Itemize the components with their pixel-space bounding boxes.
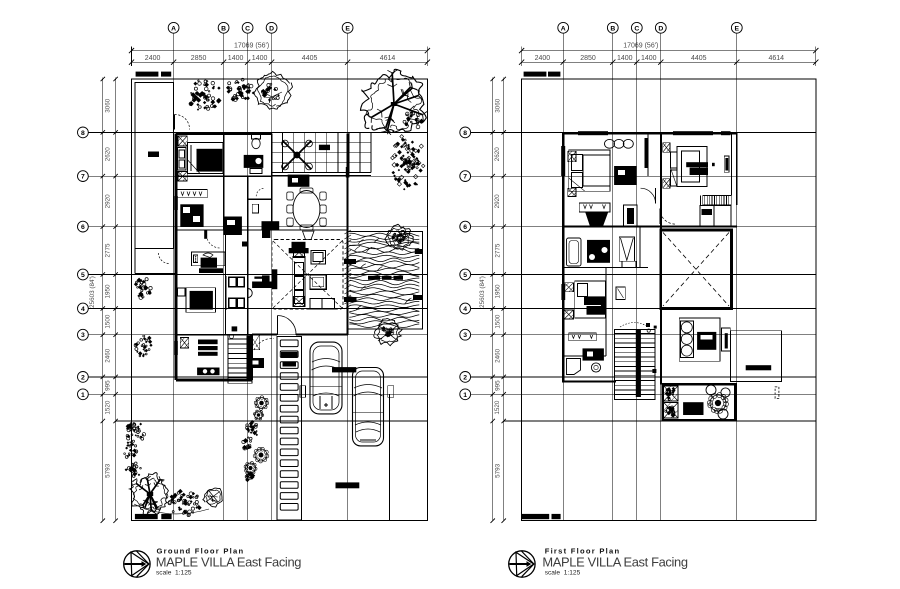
- bedroom1 wardrobe hatch boxes: [568, 151, 576, 162]
- fence line right of driveway: [389, 394, 391, 520]
- kitchen island black: [223, 217, 242, 236]
- row bubble 7: [460, 171, 471, 182]
- bedroom1 closet: [624, 205, 638, 227]
- grid line column D: [271, 33, 273, 521]
- side bushes left 1: [136, 278, 141, 283]
- column bubble A: [168, 22, 179, 33]
- svg-text:2400: 2400: [535, 55, 551, 62]
- staircase rail black: [247, 336, 253, 380]
- bath vanity black: [244, 155, 264, 168]
- svg-text:D: D: [269, 25, 274, 32]
- grid line row 7: [471, 175, 816, 177]
- svg-text:995: 995: [104, 380, 111, 391]
- living room dashed X: [273, 241, 342, 308]
- grid line column B: [612, 33, 614, 521]
- bedroom3 bed: [575, 281, 606, 318]
- grid line row 6: [471, 226, 816, 228]
- big tree top right: [361, 69, 427, 133]
- logo circle: [509, 551, 535, 577]
- toilet in bath top: [252, 135, 261, 140]
- dining table oval: [293, 191, 320, 228]
- living table black (first floor): [697, 332, 716, 350]
- svg-text:7: 7: [463, 174, 467, 181]
- living fireplace funnel: [303, 231, 315, 239]
- grid line column E: [736, 33, 738, 521]
- sofa end hatch boxes: [294, 248, 305, 258]
- wall small bath bottom: [248, 198, 272, 200]
- svg-text:1400: 1400: [617, 55, 633, 62]
- terrace round table with chairs: [710, 395, 726, 411]
- wall bedroom bottom: [176, 175, 272, 177]
- svg-text:1500: 1500: [494, 314, 501, 329]
- study desk room: [192, 252, 226, 266]
- tree at pool bottom: [374, 319, 402, 346]
- dimension line overall: [132, 50, 428, 52]
- column bubble E: [731, 22, 742, 33]
- wall window bar at column E: [346, 167, 350, 178]
- grid line column E: [347, 33, 349, 521]
- bedroom2 bed: [186, 288, 216, 313]
- svg-text:MAPLE VILLA East Facing: MAPLE VILLA East Facing: [156, 554, 301, 569]
- row bubble 4: [460, 303, 471, 314]
- svg-text:B: B: [610, 25, 615, 32]
- grid line row 5: [88, 274, 427, 276]
- svg-text:5793: 5793: [104, 463, 111, 478]
- column bubble D: [655, 22, 666, 33]
- bedroom2 dresser bottom: [700, 206, 731, 227]
- living TV unit black: [292, 242, 306, 248]
- logo chevron: [136, 551, 149, 577]
- master bedroom wardrobe hatch top: [178, 136, 187, 146]
- wall study right double: [225, 230, 227, 335]
- flower vine flowers: [256, 398, 267, 409]
- row bubble 6: [460, 221, 471, 232]
- svg-text:2775: 2775: [104, 243, 111, 258]
- svg-text:3: 3: [463, 332, 467, 339]
- setback line: [116, 420, 428, 422]
- wall bottom of bedroom3 zone: [562, 380, 616, 382]
- setback line: [504, 420, 816, 422]
- wall row6 (first floor): [563, 226, 737, 228]
- house outer wall right: [347, 134, 349, 335]
- row bubble 4: [78, 303, 89, 314]
- dashed small box right: [775, 387, 779, 399]
- grid line row 5: [471, 274, 816, 276]
- grid line column C: [636, 33, 638, 521]
- ceiling fan circles bedroom1: [605, 139, 615, 148]
- grid line column B: [223, 33, 225, 521]
- window bars top wall: [578, 131, 608, 135]
- swimming pool: [348, 232, 423, 330]
- svg-text:2920: 2920: [494, 194, 501, 209]
- svg-text:2: 2: [463, 374, 467, 381]
- entry wall: [252, 334, 277, 336]
- left dimension lines: [492, 78, 494, 521]
- balcony rail hatch bedroom2: [703, 196, 732, 206]
- entry step box: [250, 335, 259, 350]
- bathroom bottom wall: [563, 266, 648, 268]
- terrace planters: [664, 386, 678, 401]
- patio tile grid: [271, 133, 273, 173]
- dining buffet black: [288, 175, 310, 187]
- kitchen counter: [177, 189, 208, 197]
- pool step markers: [344, 259, 356, 264]
- door arc at porch: [175, 114, 190, 129]
- grid line row 8: [88, 131, 427, 133]
- svg-text:6: 6: [463, 224, 467, 231]
- car 1: [310, 342, 342, 414]
- grid line row 4: [471, 308, 816, 310]
- bedroom2 side table: [178, 288, 186, 296]
- terrace table black: [683, 402, 703, 415]
- svg-text:4405: 4405: [302, 55, 318, 62]
- svg-text:3060: 3060: [494, 98, 501, 113]
- grid line column C: [247, 33, 249, 521]
- logo triangle: [131, 552, 149, 575]
- left dimension lines: [102, 78, 104, 521]
- corridor window bar: [242, 242, 248, 247]
- svg-text:4614: 4614: [380, 55, 396, 62]
- patio table with X legs: [283, 141, 311, 169]
- svg-text:2920: 2920: [104, 194, 111, 209]
- stair top black dots: [646, 323, 650, 327]
- svg-text:C: C: [245, 25, 250, 32]
- bottom bathroom fixtures: [567, 359, 581, 375]
- wall row3 left section: [176, 334, 252, 336]
- grid line row 2: [88, 376, 427, 378]
- svg-text:3060: 3060: [104, 98, 111, 113]
- dashed walk line stairs: [620, 323, 648, 328]
- study table blob: [197, 368, 219, 376]
- terrace bold room bottom: [663, 384, 736, 420]
- svg-text:A: A: [171, 25, 176, 32]
- svg-text:17069 (56'): 17069 (56'): [623, 43, 658, 50]
- svg-text:scale 1:125: scale 1:125: [156, 570, 192, 577]
- left wall window bars: [174, 196, 178, 210]
- small bath washbasin: [252, 204, 258, 213]
- study wardrobe hatch: [180, 338, 188, 348]
- entry dashed arc near walkway: [254, 338, 274, 350]
- hall chairs pair bottom: [229, 298, 236, 308]
- bedroom2 wardrobe hatch boxes: [663, 143, 670, 153]
- corridor window bar: [645, 138, 649, 168]
- column bubble A: [558, 22, 569, 33]
- wall corridor vertical: [247, 176, 249, 335]
- grid line row 3: [88, 334, 427, 336]
- svg-text:5: 5: [81, 272, 85, 279]
- svg-text:C: C: [634, 25, 639, 32]
- dimension line segments: [522, 61, 816, 63]
- small black square hall: [232, 326, 238, 331]
- bedroom2 blanket black: [686, 162, 708, 167]
- row bubble 5: [78, 269, 89, 280]
- study desk black bars: [198, 340, 218, 345]
- grid line row 3: [471, 334, 816, 336]
- outer wall top (first floor): [563, 132, 737, 134]
- svg-text:25603 (84'): 25603 (84'): [89, 276, 96, 308]
- svg-text:8: 8: [463, 130, 467, 137]
- logo arrow: [124, 563, 142, 565]
- living black wall fills: [262, 230, 270, 238]
- plot boundary: [522, 79, 816, 521]
- black marker bars bottom-left (first floor): [522, 514, 549, 519]
- gate posts: [300, 386, 306, 398]
- svg-text:E: E: [735, 25, 740, 32]
- hall wall double line: [225, 276, 227, 310]
- row bubble 1: [460, 389, 471, 400]
- living room platform (first floor): [679, 318, 720, 361]
- svg-text:5: 5: [463, 272, 467, 279]
- spine wall column D: [660, 133, 662, 230]
- bedroom2 closet right: [724, 156, 729, 172]
- bush top band 2: [243, 88, 244, 89]
- study desk black bars: [201, 258, 217, 268]
- master bedroom dresser: [178, 148, 187, 171]
- grid line row 7: [88, 175, 427, 177]
- bottom-left bush cluster: [131, 434, 133, 436]
- grid line column A: [562, 33, 564, 521]
- svg-text:E: E: [345, 25, 350, 32]
- living two-seat sofa: [310, 299, 335, 310]
- bedroom1 desk black: [614, 166, 636, 185]
- living sofa vertical: [293, 257, 305, 307]
- svg-text:2775: 2775: [494, 243, 501, 258]
- hall console black: [252, 282, 272, 289]
- tree over pool top: [385, 224, 414, 250]
- driveway black dash: [336, 482, 360, 488]
- black marker bars above plot top-left (first floor): [524, 72, 547, 77]
- living room dashed boundary: [272, 240, 343, 310]
- bath fixtures lines: [250, 169, 262, 174]
- black bar between cars: [332, 367, 356, 372]
- door arc corridor bedroom1: [641, 188, 656, 203]
- svg-text:1400: 1400: [641, 55, 657, 62]
- hatch on right wall at living: [345, 230, 352, 234]
- threshold black at stair foot: [249, 358, 264, 368]
- plot boundary: [132, 79, 428, 521]
- svg-text:A: A: [561, 25, 566, 32]
- svg-text:25603 (84'): 25603 (84'): [479, 276, 486, 308]
- wall bedroom/bath vertical: [223, 134, 225, 230]
- living armchair: [311, 251, 326, 265]
- grid line row 6: [88, 226, 427, 228]
- svg-text:MAPLE VILLA East Facing: MAPLE VILLA East Facing: [542, 554, 687, 569]
- bedroom3 right wall: [605, 267, 607, 356]
- outer wall right top section: [736, 133, 738, 205]
- wall bedroom1 right: [647, 133, 649, 176]
- svg-text:scale 1:125: scale 1:125: [545, 570, 581, 577]
- bedroom3 blanket black: [584, 296, 605, 305]
- logo circle: [124, 551, 150, 577]
- svg-text:2850: 2850: [191, 55, 207, 62]
- row bubble 8: [78, 127, 89, 138]
- house wall right of study: [251, 335, 253, 380]
- dining chairs: [287, 192, 293, 200]
- grid line column D: [660, 33, 662, 521]
- bedroom2 bed: [677, 147, 707, 187]
- svg-text:5793: 5793: [494, 463, 501, 478]
- svg-text:1400: 1400: [228, 55, 244, 62]
- black marker bars above plot top-left: [136, 72, 159, 77]
- grid line row 4: [88, 308, 427, 310]
- row bubble 6: [78, 221, 89, 232]
- wall right of bedroom2: [730, 133, 732, 195]
- kitchen door leaf and arc: [204, 231, 207, 239]
- stair small black square: [652, 369, 656, 373]
- svg-text:B: B: [221, 25, 226, 32]
- row bubble 5: [460, 269, 471, 280]
- bathroom right wall: [639, 227, 641, 268]
- bottom-left black bars: [135, 514, 158, 519]
- svg-text:6: 6: [81, 224, 85, 231]
- svg-text:2620: 2620: [494, 147, 501, 162]
- svg-text:2460: 2460: [104, 348, 111, 363]
- porch door arc lower: [159, 253, 170, 264]
- svg-text:1520: 1520: [494, 400, 501, 415]
- svg-text:2: 2: [81, 374, 85, 381]
- patio black marker: [319, 145, 330, 150]
- svg-text:1: 1: [463, 392, 467, 399]
- dimension line segments: [132, 61, 428, 63]
- car 2: [353, 368, 384, 446]
- balcony (first floor): [731, 331, 782, 382]
- svg-text:2400: 2400: [145, 55, 161, 62]
- column bubble B: [607, 22, 618, 33]
- bottom bath wall: [563, 355, 606, 357]
- pool black dashes: [368, 276, 380, 280]
- bedroom1 bed: [569, 150, 610, 191]
- hall side table: [248, 289, 252, 298]
- svg-text:7: 7: [81, 174, 85, 181]
- column bubble B: [218, 22, 229, 33]
- svg-text:1950: 1950: [104, 284, 111, 299]
- svg-text:1500: 1500: [104, 314, 111, 329]
- grid line row 1: [88, 393, 427, 395]
- column bubble C: [242, 22, 253, 33]
- confetti shrub right side: [406, 151, 409, 154]
- grid line row 1: [471, 393, 816, 395]
- svg-text:4405: 4405: [691, 55, 707, 62]
- door arc bedroom2 entry: [660, 209, 676, 225]
- staircase (first floor): [615, 329, 655, 399]
- sideboard black near column D: [262, 221, 280, 230]
- svg-text:4: 4: [463, 306, 467, 313]
- svg-text:D: D: [658, 25, 663, 32]
- bathroom vanity chair black: [587, 240, 610, 263]
- logo arrow: [509, 563, 527, 565]
- svg-text:1400: 1400: [252, 55, 268, 62]
- kitchen stove black: [180, 204, 203, 226]
- entrance walkway ladder: [277, 337, 302, 521]
- row bubble 7: [78, 171, 89, 182]
- svg-text:17069 (56'): 17069 (56'): [234, 43, 269, 50]
- tree top band 3: [254, 71, 293, 109]
- walkway black treads: [281, 352, 298, 358]
- staircase center rail black: [636, 329, 641, 397]
- row bubble 2: [460, 372, 471, 383]
- wall bath right vertical: [271, 134, 273, 230]
- bedroom1 dresser and chair: [579, 203, 610, 212]
- svg-text:1: 1: [81, 392, 85, 399]
- hall chairs pair top: [229, 277, 236, 287]
- porch / driveway strip: [135, 82, 174, 248]
- small bath door arc: [256, 188, 264, 196]
- bush top band 1: [210, 105, 213, 108]
- grid line row 2: [471, 376, 816, 378]
- porch marker: [148, 152, 159, 158]
- internal staircase: [228, 335, 252, 384]
- logo chevron: [521, 551, 534, 577]
- svg-text:4: 4: [81, 306, 85, 313]
- bedroom3 wardrobe hatch boxes: [564, 283, 573, 292]
- column bubble E: [342, 22, 353, 33]
- side bushes left 2: [143, 345, 147, 349]
- column bubble D: [266, 22, 277, 33]
- wardrobe with V: [619, 237, 634, 261]
- living coffee table: [310, 275, 326, 290]
- bedroom3 dresser strip: [569, 333, 597, 341]
- bathroom bathtub: [567, 238, 582, 266]
- svg-text:4614: 4614: [769, 55, 785, 62]
- outer wall left (first floor): [562, 133, 564, 381]
- row bubble 8: [460, 127, 471, 138]
- row bubble 2: [78, 372, 89, 383]
- sofa three cushions: [681, 321, 694, 358]
- svg-text:3: 3: [81, 332, 85, 339]
- open to below X room: [661, 230, 732, 309]
- grid line column A: [173, 33, 175, 521]
- bedroom3 mirror: [616, 287, 625, 300]
- grid line row 8: [471, 131, 816, 133]
- svg-text:2850: 2850: [580, 55, 596, 62]
- svg-text:1950: 1950: [494, 284, 501, 299]
- row bubble 3: [460, 329, 471, 340]
- column bubble C: [631, 22, 642, 33]
- balcony black dash: [746, 365, 772, 370]
- row bubble 3: [78, 329, 89, 340]
- row bubble 1: [78, 389, 89, 400]
- house outer wall left: [175, 134, 178, 380]
- svg-text:2620: 2620: [104, 147, 111, 162]
- master bed: [188, 143, 224, 174]
- black cabinet above bath: [583, 348, 604, 360]
- svg-text:995: 995: [494, 380, 501, 391]
- flower vine scribble: [246, 426, 249, 429]
- master bedroom wardrobe hatch bottom: [178, 172, 187, 182]
- wall kitchen bottom: [176, 229, 348, 231]
- stair circle: [230, 335, 234, 339]
- dimension line overall: [522, 50, 816, 52]
- svg-text:8: 8: [81, 130, 85, 137]
- svg-text:1520: 1520: [104, 400, 111, 415]
- svg-text:2460: 2460: [494, 348, 501, 363]
- logo triangle: [516, 552, 534, 575]
- entry door arc: [278, 316, 297, 335]
- TV unit (first floor): [721, 328, 730, 351]
- house outer wall top: [176, 132, 272, 135]
- bedroom3 black bits: [601, 300, 606, 309]
- house wall bottom-left: [176, 379, 252, 382]
